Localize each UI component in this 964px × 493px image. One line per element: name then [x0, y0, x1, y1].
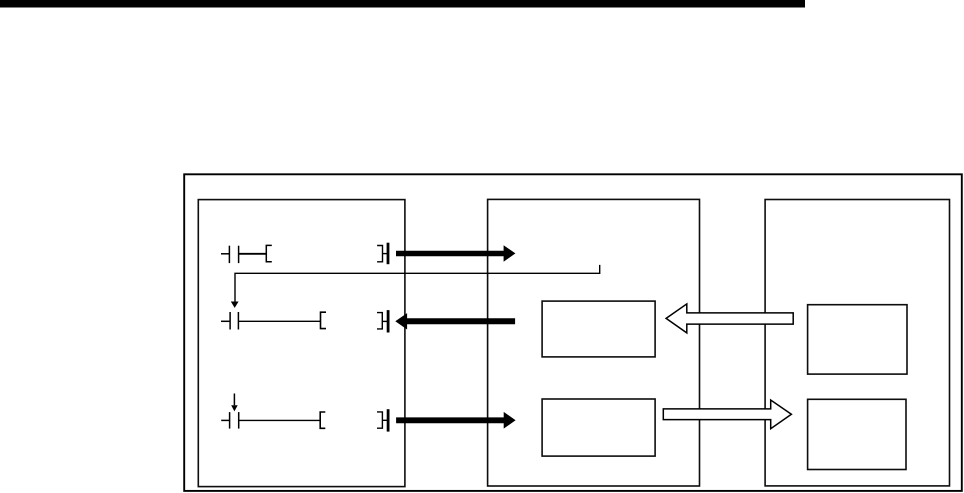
hollow arrow refresh read (device memory to OS) — [666, 304, 793, 333]
data flow arrow rung 2 from OS — [395, 313, 515, 329]
wire rung 1 output — [383, 253, 388, 255]
wire trigger leader — [235, 265, 600, 302]
wire rung 3 — [239, 419, 321, 421]
data flow arrow rung 1 to OS — [396, 245, 515, 262]
device memory box 2 — [808, 399, 906, 469]
ladder program area box — [198, 200, 405, 487]
data flow arrow rung 3 to OS — [396, 412, 515, 429]
instruction bracket rung 2 — [321, 312, 327, 328]
wire rung 3 lead — [221, 419, 229, 421]
wire rung 2 — [238, 320, 321, 322]
operation processing area box — [488, 199, 700, 486]
step return bracket rung 3 — [377, 412, 382, 428]
execution bar rung 1 — [387, 243, 390, 265]
device memory box 1 — [808, 305, 907, 374]
OS buffer box 2 — [542, 399, 655, 456]
wire rung 1 lead — [221, 253, 229, 255]
wire rung 3 output — [382, 419, 387, 421]
wire trigger rung 3 — [233, 394, 235, 406]
OS buffer box 1 — [542, 301, 655, 357]
contact rung 2 — [230, 312, 238, 330]
arrowhead trigger rung 2 — [231, 302, 239, 308]
instruction bracket rung 1 — [266, 245, 272, 261]
contact rung 1 — [229, 246, 238, 263]
execution bar rung 2 — [387, 310, 390, 332]
instruction bracket rung 3 — [320, 412, 325, 428]
wire rung 2 lead — [221, 320, 230, 322]
wire rung 1 — [239, 253, 267, 255]
hollow arrow refresh write (OS to device memory) — [663, 400, 791, 429]
arrowhead trigger rung 3 — [231, 405, 238, 411]
device memory area box — [765, 200, 949, 486]
step return bracket rung 1 — [377, 246, 382, 262]
contact rung 3 — [230, 412, 239, 429]
execution bar rung 3 — [387, 409, 390, 431]
wire rung 2 output — [382, 320, 387, 322]
step return bracket rung 2 — [377, 313, 382, 329]
